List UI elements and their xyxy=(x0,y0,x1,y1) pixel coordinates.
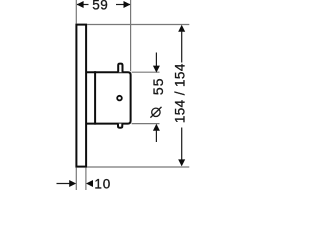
dimension 59 line left segment xyxy=(77,4,89,6)
dimension 10 left arrow (pointing right) xyxy=(69,180,76,187)
svg-text:10: 10 xyxy=(94,176,111,190)
extension line top (plate top to dim 154) xyxy=(87,24,189,26)
dimension 59 line right segment xyxy=(116,4,130,6)
svg-text:154 / 154: 154 / 154 xyxy=(173,63,188,123)
svg-text:59: 59 xyxy=(92,0,108,13)
dimension 55 upper arrow (down) xyxy=(153,66,160,73)
extension line bottom-right of dim 10 xyxy=(85,168,87,190)
extension line bottom-left of dim 10 xyxy=(75,168,77,190)
dimension text 55 (rotated) xyxy=(150,78,166,96)
dimension 154/154 line upper segment xyxy=(181,31,183,63)
stop screw boss (bottom) xyxy=(118,124,122,128)
valve body front face line xyxy=(94,71,96,124)
svg-text:55: 55 xyxy=(150,78,166,96)
dimension text 59 xyxy=(92,0,108,13)
dimension 154/154 line lower segment xyxy=(181,128,183,161)
dimension 10 right arrow (pointing left) xyxy=(86,180,93,187)
diameter symbol xyxy=(150,107,161,118)
escutcheon plate (side view) xyxy=(76,25,86,167)
valve body outline with neck to plate xyxy=(86,72,131,123)
extension line bottom (plate bottom to dim 154) xyxy=(87,166,189,168)
dimension 55 lower stem xyxy=(155,130,157,142)
dimension 59 right arrow xyxy=(124,1,131,8)
dimension 59 left arrow xyxy=(77,1,84,8)
stop screw boss (top) xyxy=(118,64,122,73)
screw hole xyxy=(117,96,122,101)
dimension 10 tail line xyxy=(57,183,71,185)
dimension 55 lower arrow (up) xyxy=(153,124,160,131)
dimension 55 upper stem xyxy=(155,53,157,67)
extension line body bottom (to dim 55) xyxy=(132,123,160,125)
dimension text 154 / 154 (rotated) xyxy=(173,63,188,123)
dimension text 10 xyxy=(94,176,111,191)
extension line right of dim 59 (above body) xyxy=(130,0,132,71)
dimension 154/154 bottom arrow (down) xyxy=(178,159,185,166)
extension line body top (to dim 55) xyxy=(132,71,160,73)
dimension 154/154 top arrow (up) xyxy=(178,25,185,32)
extension line left of dim 59 (above plate) xyxy=(75,0,77,24)
